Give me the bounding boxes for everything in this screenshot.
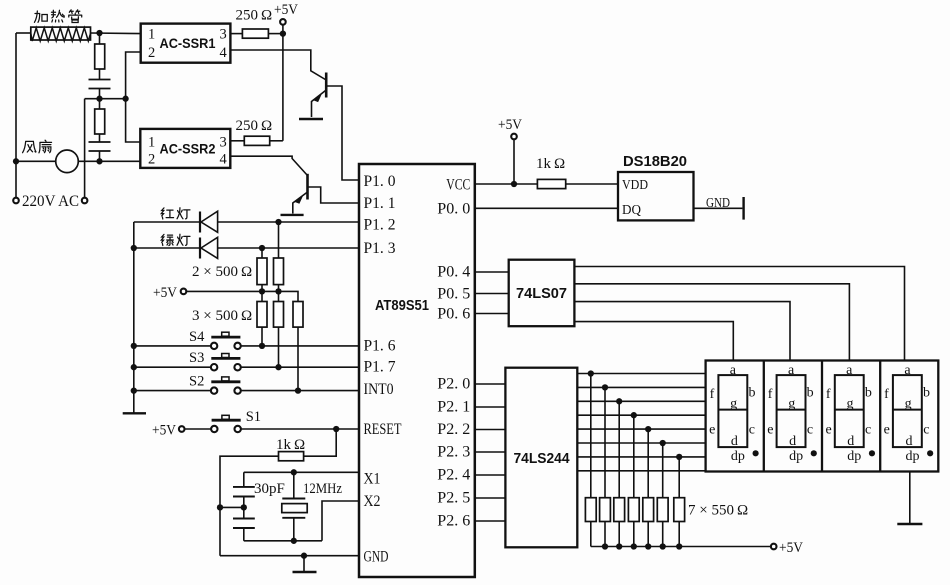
junction +5V bus [602,543,608,549]
wire rail to S4 [134,345,211,347]
resistor R7c 550Ω [614,498,625,522]
terminal 220V AC right [82,198,88,204]
svg-text:74LS244: 74LS244 [514,450,571,467]
resistor R2 250Ω [244,136,269,145]
junction +5V bus [616,543,622,549]
svg-text:250 Ω: 250 Ω [236,8,273,24]
wire R7c to +5V bus [618,522,620,547]
wire C1 to C2 [243,497,245,519]
junction node M2 [122,96,128,102]
svg-text:P0. 6: P0. 6 [437,306,470,323]
wire P1.2 to R3b [278,222,280,258]
svg-text:g: g [788,397,795,412]
junction +5V/R3b [275,288,281,294]
junction VCC/+5V [511,181,517,187]
svg-text:P2. 5: P2. 5 [437,490,470,507]
svg-text:30pF: 30pF [254,481,285,497]
node heater output [96,30,102,36]
MCU U1 AT89S51 [359,164,475,577]
wire GND line [220,555,359,557]
resistor R4a 500Ω [257,302,267,328]
resistor R4b 500Ω [274,302,284,328]
wire segment line 6 [577,442,705,444]
junction +5V/R3a [259,288,265,294]
DS2 decimal point [811,450,817,456]
junction X1/crystal [291,469,297,475]
svg-text:e: e [767,423,773,438]
wire R7b to +5V bus [604,522,606,547]
wire +5V vertical to R2 [282,25,284,141]
display divider [879,361,881,472]
wire RESET down to R5 [304,429,337,456]
wire segment 6 to R7f [662,443,664,498]
snubber resistor Ra [95,44,105,69]
ground (display common) [909,472,911,524]
wire DS18B20 to GND bar [694,207,743,209]
wire P0.0/DQ line [475,207,618,209]
svg-text:S1: S1 [246,409,261,425]
label 加热管 (heater) [34,11,47,22]
svg-text:c: c [807,423,813,438]
wire 220V right terminal up to snubber node [84,99,86,198]
resistor R3b 500Ω [274,258,284,285]
wire +5V to S1 [185,428,211,430]
svg-text:2 × 500 Ω: 2 × 500 Ω [192,264,252,280]
display divider [763,361,765,472]
junction P1.6/R4a [259,343,265,349]
wire digit select 2 [574,302,790,361]
Q2 emitter [293,192,308,214]
svg-text:c: c [865,423,871,438]
wire P1.3 to R3a [261,248,263,258]
terminal +5V bus [771,544,777,550]
svg-text:e: e [884,423,890,438]
svg-text:dp: dp [789,449,803,464]
junction +5V bus [631,543,637,549]
wire Ra to Ca [99,69,101,80]
terminal +5V VCC [511,134,517,140]
wire R7g to +5V bus [678,522,680,547]
svg-text:f: f [826,387,831,402]
svg-text:+5V: +5V [153,285,177,301]
svg-text:c: c [749,423,755,438]
junction rail/S4 [131,343,137,349]
svg-text:P0. 4: P0. 4 [437,264,470,281]
7-segment display DS1 [718,375,747,447]
terminal 220V AC left [13,198,19,204]
svg-text:d: d [847,434,854,449]
svg-text:P1. 3: P1. 3 [364,240,396,257]
display block DS1-DS4 outer frame [706,361,939,472]
svg-text:P2. 6: P2. 6 [437,513,470,530]
wire M2 down to AC-SSR2 pin1 [126,99,141,142]
svg-text:+5V: +5V [152,423,176,439]
wire S3 to P1.7 [241,366,359,368]
svg-text:S4: S4 [189,329,205,345]
svg-text:e: e [709,423,715,438]
svg-text:2: 2 [148,152,155,168]
DS3 decimal point [869,450,875,456]
wire SSR2 pin3 to R2 [230,140,244,142]
Q1 base bar [325,73,328,98]
junction R1/+5V [280,30,286,36]
svg-text:3: 3 [220,135,227,151]
resistor R4c 500Ω [293,302,303,328]
svg-text:X1: X1 [364,471,381,488]
DS1 decimal point [753,450,759,456]
svg-text:P1. 0: P1. 0 [364,173,396,190]
junction P1.7/R4b [275,364,281,370]
Q2 emitter ground [281,214,304,216]
svg-text:+5V: +5V [498,117,522,133]
switch S4 [211,343,217,349]
wire R7a to +5V bus [590,522,592,547]
7-segment display DS3 [835,375,864,447]
svg-text:d: d [905,434,912,449]
junction segment 3/pullup [616,398,622,404]
svg-text:RESET: RESET [364,421,402,438]
svg-text:INT0: INT0 [364,381,394,398]
wire segment 4 to R7d [633,415,635,498]
snubber capacitor Cb [89,141,111,143]
wire R2 to +5V line [270,140,283,142]
junction INT0/R4c [295,387,301,393]
wire S4 to P1.6 [241,345,359,347]
svg-text:250 Ω: 250 Ω [236,118,273,134]
wire bottom line to X2 [322,501,359,541]
resistor R7f 550Ω [657,498,668,522]
svg-text:dp: dp [847,449,861,464]
wire segment line 8 [577,470,705,472]
switch S2 [211,387,217,393]
wire +5V to R4a [261,291,263,301]
svg-text:+5V: +5V [779,540,803,556]
svg-text:dp: dp [731,449,745,464]
svg-text:dp: dp [905,449,919,464]
svg-text:X2: X2 [364,493,381,510]
capacitor C2 30pF [233,518,255,520]
wire left 220V rail [15,33,17,197]
resistor R7e 550Ω [643,498,654,522]
wire segment 5 to R7e [647,429,649,498]
svg-text:b: b [923,386,930,401]
junction segment 6/pullup [660,440,666,446]
wire X1 to C1 [243,472,245,487]
svg-text:220V AC: 220V AC [22,193,79,210]
svg-text:P2. 3: P2. 3 [437,444,470,461]
DS4 middle bar [893,409,922,411]
junction rail-fan [13,158,19,164]
ground (left rail) [123,412,146,414]
junction node M [96,96,102,102]
svg-text:d: d [731,434,738,449]
DS1 middle bar [718,409,747,411]
svg-text:AC-SSR2: AC-SSR2 [160,141,216,157]
wire R7f to +5V bus [662,522,664,547]
svg-text:3 × 500 Ω: 3 × 500 Ω [192,308,252,324]
ground (GND pin) [303,556,305,572]
Q1 emitter ground [299,118,323,120]
svg-text:a: a [846,363,853,378]
DS3 middle bar [835,409,864,411]
svg-text:b: b [865,386,872,401]
wire X1 line [244,471,359,473]
junction Cb-fan line [96,158,102,164]
wire rail to heater [16,32,30,34]
wire R5 to ground rail [220,456,279,556]
svg-text:4: 4 [220,152,228,168]
switch S1 [211,426,217,432]
svg-text:b: b [807,386,814,401]
junction P1.3/R pullup [259,245,265,251]
terminal +5V top [280,19,286,25]
svg-text:P0. 0: P0. 0 [437,201,470,218]
svg-text:S3: S3 [189,350,204,366]
wire +5V bus [591,546,771,548]
resistor R7b 550Ω [600,498,611,522]
wire cap midpoint to rail [220,506,244,508]
junction segment 4/pullup [631,412,637,418]
junction segment 1/pullup [588,370,594,376]
sensor U2 DS18B20 [618,172,694,220]
label 风扇 (fan) [23,141,37,152]
wire P2.3 to 74LS244 [475,451,506,453]
wire R4b to P1.7 line [278,327,280,367]
DS2 middle bar [777,409,806,411]
resistor R5 1kΩ [279,452,304,461]
wire node M horizontal [85,98,126,100]
wire heater to AC-SSR1 pin1 [91,32,141,35]
svg-text:1k Ω: 1k Ω [536,156,565,172]
wire C2 to bottom line [243,528,245,541]
svg-text:g: g [730,397,737,412]
Q2 base bar [306,174,309,200]
junction rail/P1.3 [131,245,137,251]
svg-text:P1. 7: P1. 7 [364,359,396,376]
junction segment 5/pullup [645,426,651,432]
ground bar (DS18B20) [742,197,744,220]
svg-text:e: e [825,423,831,438]
svg-text:+5V: +5V [274,2,298,18]
7-segment display DS4 [893,375,922,447]
svg-text:P1. 2: P1. 2 [364,217,396,234]
svg-text:1k Ω: 1k Ω [276,437,305,453]
svg-text:DS18B20: DS18B20 [623,154,687,170]
wire segment 2 to R7b [604,387,606,497]
crystal Y1 12MHz [293,472,295,498]
wire Ca to node M [99,89,101,99]
svg-text:74LS07: 74LS07 [516,285,567,302]
svg-text:2: 2 [148,45,155,61]
wire S2 to INT0 [241,390,359,392]
junction crystal/bottom line [291,538,297,544]
wire P2.0 to 74LS244 [475,383,506,385]
svg-text:g: g [846,397,853,412]
DS4 decimal point [927,450,933,456]
resistor R6 1kΩ on VCC line [537,179,565,188]
resistor R3a 500Ω [257,258,267,285]
wire segment 1 to R7a [590,374,592,498]
wire rail to S2 [134,390,211,392]
svg-text:P1. 1: P1. 1 [364,195,396,212]
resistor R7a 550Ω [585,498,596,522]
wire SSR2 pin4 to Q2 collector [230,156,307,175]
terminal +5V S1 [179,426,185,432]
wire P0.5 to 74LS07 [475,293,509,295]
svg-text:S2: S2 [189,374,204,390]
wire P2.2 to 74LS244 [475,429,506,431]
wire to snubber resistor Ra [99,33,101,44]
svg-text:P0. 5: P0. 5 [437,286,470,303]
wire crystal bottom line [244,540,322,542]
wire segment line 5 [577,428,705,430]
wire +5V mid line [187,291,298,301]
svg-text:GND: GND [364,549,389,566]
wire node M to snubber resistor Rb [99,99,101,109]
svg-text:d: d [789,434,796,449]
snubber capacitor Ca [89,79,111,81]
LED green (绿灯) D2 [199,238,201,259]
svg-text:DQ: DQ [622,203,641,218]
wire segment 7 to R7g [678,457,680,498]
wire VCC line [475,183,618,185]
svg-text:GND: GND [706,196,730,211]
resistor R1 250Ω [242,29,268,38]
driver U4 74LS244 [505,368,577,548]
wire segment line 7 [577,456,705,458]
heating element (加热管) [31,27,91,40]
svg-text:f: f [768,387,773,402]
svg-text:c: c [923,423,929,438]
svg-text:AC-SSR1: AC-SSR1 [160,35,216,51]
wire Cb to fan line [99,151,101,161]
svg-text:f: f [710,387,715,402]
svg-text:P2. 4: P2. 4 [437,467,470,484]
wire segment line 3 [577,400,705,402]
terminal +5V mid [181,289,187,295]
junction C1-C2 midpoint [241,504,247,510]
svg-text:a: a [730,363,737,378]
resistor R7d 550Ω [628,498,639,522]
svg-text:1: 1 [148,135,155,151]
svg-text:b: b [749,386,756,401]
wire SSR1 pin3 to R1 [230,33,242,35]
display divider [821,361,823,472]
wire S1 to RESET [241,428,359,430]
svg-text:4: 4 [220,45,228,61]
svg-text:12MHz: 12MHz [303,481,342,497]
wire +5V to R4b [278,291,280,301]
wire segment line 2 [577,386,705,388]
wire fan to AC-SSR2 pin2 [78,160,140,162]
svg-text:a: a [904,363,911,378]
wire rail to S3 [134,366,211,368]
wire M2 up to AC-SSR1 pin2 [126,52,141,99]
label 绿灯 (green lamp) [161,234,173,245]
wire SSR1 pin4 to Q1 collector [230,50,326,80]
relay AC-SSR1 [141,24,231,63]
wire rail to fan [16,160,56,162]
relay AC-SSR2 [140,129,230,168]
junction segment 7/pullup [676,454,682,460]
wire P2.5 to 74LS244 [475,497,506,499]
wire P1.3 line [134,247,359,249]
wire segment 3 to R7c [618,401,620,497]
svg-text:7 × 550 Ω: 7 × 550 Ω [688,503,748,519]
junction rail/S2 [131,387,137,393]
svg-text:f: f [884,387,889,402]
wire R1 to +5V line [268,33,283,35]
wire R7d to +5V bus [633,522,635,547]
svg-text:P2. 2: P2. 2 [437,421,470,438]
wire R7e to +5V bus [647,522,649,547]
capacitor C1 30pF [233,486,255,488]
svg-text:3: 3 [220,27,227,43]
wire P2.1 to 74LS244 [475,406,506,408]
wire Rb to Cb [99,134,101,142]
switch S3 [211,364,217,370]
junction segment 2/pullup [602,384,608,390]
wire Q1 base to P1.0 [326,86,359,180]
wire R3a to +5V mid line [261,285,263,292]
junction GND/ground symbol [301,553,307,559]
svg-text:VDD: VDD [622,178,648,193]
svg-text:P2. 0: P2. 0 [437,376,470,393]
junction +5V bus [676,543,682,549]
svg-text:1: 1 [148,27,155,43]
junction +5V bus [645,543,651,549]
junction RESET/R5 [333,426,339,432]
wire +5V down to VCC [513,140,515,184]
LED red (红灯) D1 [199,212,201,233]
wire segment line 4 [577,414,705,416]
svg-text:P1. 6: P1. 6 [364,338,396,355]
buffer U3 74LS07 [509,260,575,327]
wire P2.4 to 74LS244 [475,474,506,476]
svg-text:AT89S51: AT89S51 [375,298,429,314]
junction rail/cap midpoint [217,504,223,510]
7-segment display DS2 [777,375,806,447]
svg-text:g: g [905,397,912,412]
svg-text:VCC: VCC [446,177,470,194]
wire R3b to +5V mid line [278,285,280,292]
wire segment line 1 [577,373,705,375]
wire digit select 3 [574,284,849,361]
Q1 emitter [312,90,327,117]
wire Q2 base to P1.1 [308,187,360,203]
fan motor symbol [56,150,79,173]
svg-text:P2. 1: P2. 1 [437,399,470,416]
wire R4c to INT0 line [297,327,299,391]
label 红灯 (red lamp) [161,208,173,219]
wire digit select 4 [574,267,904,361]
resistor R7g 550Ω [674,498,685,522]
junction P1.2/R pullup [275,219,281,225]
wire P0.4 to 74LS07 [475,271,509,273]
wire R4a to P1.6 line [261,327,263,346]
svg-text:a: a [788,363,795,378]
wire left ground rail [133,222,135,413]
snubber resistor Rb [95,109,105,134]
junction +5V bus [660,543,666,549]
wire digit select 1 [574,322,733,361]
wire P2.6 to 74LS244 [475,520,506,522]
wire P0.6 to 74LS07 [475,313,509,315]
junction rail/S3 [131,364,137,370]
wire P1.2 line [134,221,359,223]
